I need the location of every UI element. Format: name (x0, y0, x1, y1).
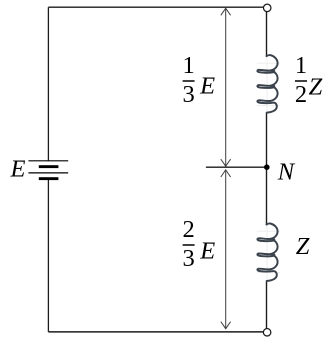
battery cell plate long bottom (28, 172, 68, 174)
svg-text:1: 1 (182, 52, 194, 79)
label one-half: fraction 1/2 (295, 80, 307, 82)
svg-text:1: 1 (295, 52, 307, 79)
wire left vertical (source bottom) (47, 180, 49, 332)
wire faint horizontal guide L1 bottom (257, 105, 280, 107)
wire faint vertical guide through L1 (266, 57, 268, 112)
wire faint horizontal guide L2 top (257, 230, 280, 232)
wire faint vertical guide through L2 (266, 225, 268, 280)
wire faint horizontal guide L2 bottom (257, 272, 280, 274)
svg-text:3: 3 (182, 81, 194, 108)
dimension line lower (2/3 E span) (225, 170, 227, 329)
svg-text:E: E (10, 155, 26, 182)
wire left vertical (source top) (47, 7, 49, 161)
node N junction dot (264, 164, 270, 170)
svg-text:E: E (199, 237, 215, 264)
svg-text:Z: Z (296, 233, 310, 260)
battery cell plate long top (28, 160, 68, 162)
svg-text:Z: Z (309, 73, 323, 100)
wire right vertical: terminal to inductor L1 (266, 12, 268, 56)
arrowhead up at node line (lower) (221, 170, 231, 177)
terminal circle top right (263, 4, 271, 11)
label two-thirds: fraction 2/3 (183, 244, 195, 246)
wire bottom horizontal (48, 331, 263, 333)
inductor L2 (Z coil) (257, 223, 277, 281)
wire top horizontal (48, 6, 263, 8)
wire node stub horizontal (206, 166, 267, 168)
svg-text:2: 2 (295, 81, 307, 108)
dimension line upper (1/3 E span) (225, 8, 227, 166)
wire faint horizontal guide L1 top (257, 62, 280, 64)
svg-text:N: N (277, 159, 296, 186)
svg-text:2: 2 (182, 216, 194, 243)
battery cell plate short thick top (39, 165, 59, 168)
wire right vertical: L2 to bottom terminal (266, 281, 268, 329)
label one-third: fraction 1/3 (183, 80, 195, 82)
svg-text:E: E (199, 72, 215, 99)
svg-text:3: 3 (182, 245, 194, 272)
wire right vertical: L1 through node N to L2 (266, 112, 268, 224)
arrowhead down at bottom wire (221, 322, 231, 329)
inductor L1 (1/2 Z coil) (257, 55, 277, 113)
arrowhead down at node line (upper) (221, 159, 231, 166)
terminal circle bottom right (263, 329, 271, 337)
arrowhead up at top wire (221, 8, 231, 15)
battery cell plate short thick bottom (39, 177, 59, 180)
